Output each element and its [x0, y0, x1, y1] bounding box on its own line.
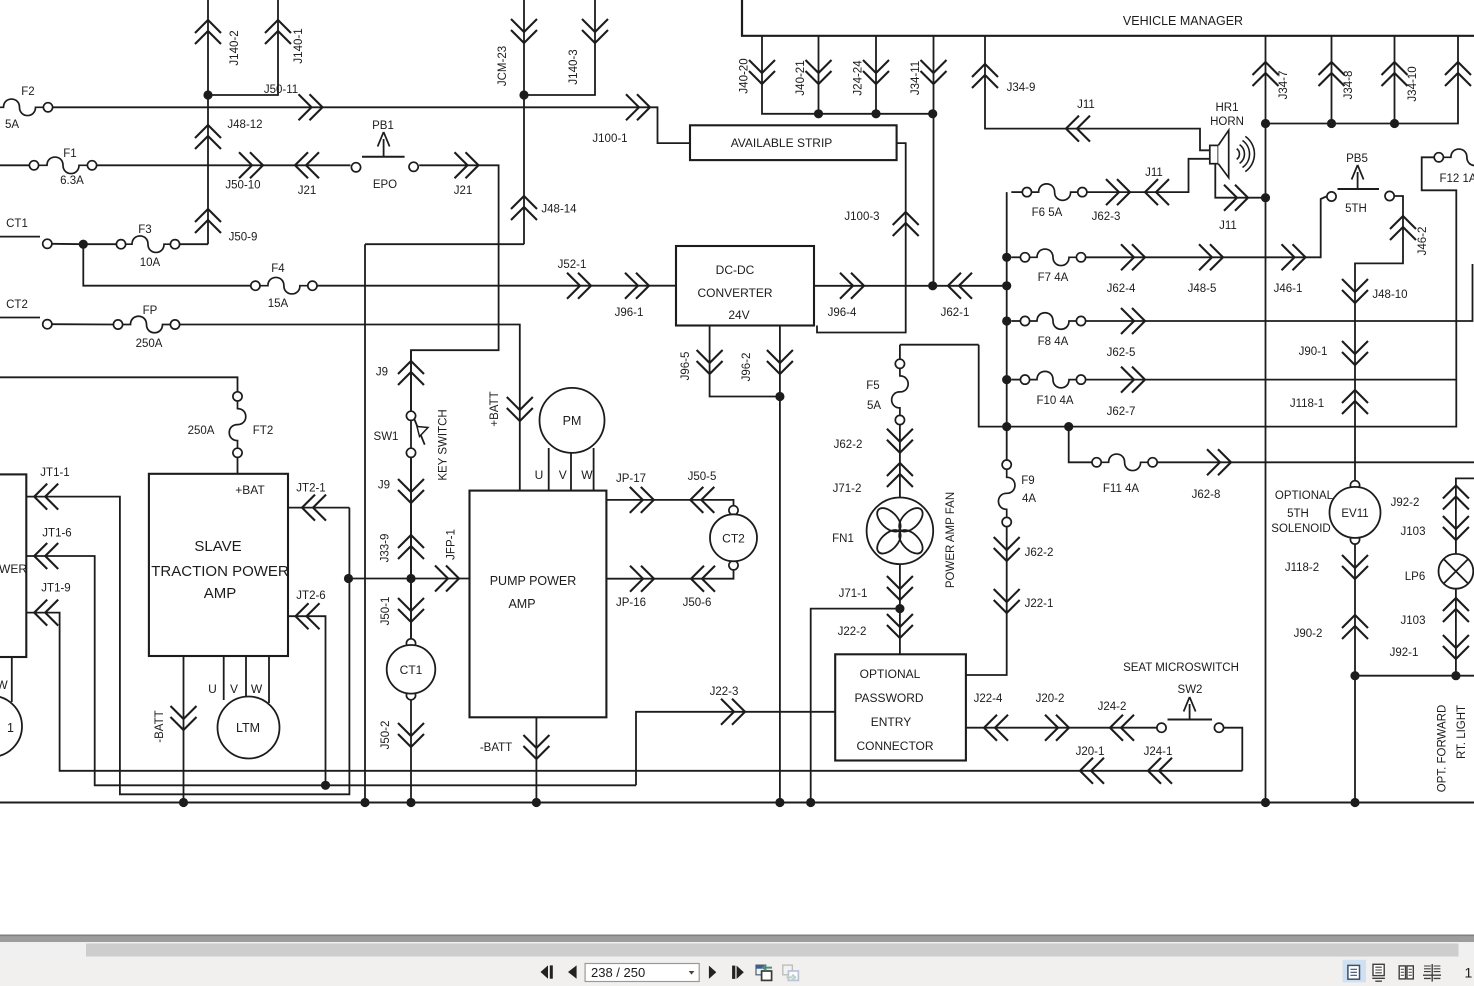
svg-text:J34-8: J34-8 [1343, 71, 1355, 100]
connector J24-1 [1144, 746, 1173, 784]
svg-text:24V: 24V [728, 308, 749, 322]
pushbutton PB1 (EPO) [351, 120, 418, 191]
wire J40-20 drop + left VM bus [762, 36, 932, 114]
wire FP to +BATT of pump amp [180, 325, 520, 491]
junction bus pump -BATT [532, 798, 541, 807]
svg-text:AMP: AMP [204, 585, 237, 602]
motor LTM (slave traction motor) [208, 682, 279, 759]
junction fuse bus bottom [1002, 422, 1011, 431]
connector J96-4 [828, 273, 864, 319]
svg-text:JCM-23: JCM-23 [497, 46, 509, 86]
wire F5 to FN1 fan [899, 425, 901, 499]
connector JP-16 [616, 566, 654, 609]
svg-text:J22-4: J22-4 [974, 693, 1003, 705]
connector J62-5 [1107, 308, 1145, 359]
svg-text:J40-21: J40-21 [795, 60, 807, 95]
connector J90-1 [1299, 341, 1368, 365]
vehicle manager box U100 [742, 0, 1474, 36]
svg-text:J140-1: J140-1 [293, 28, 305, 63]
wire JT2-1 link [288, 507, 349, 509]
svg-text:5A: 5A [5, 119, 19, 131]
junction right VM bus 3 [1390, 119, 1399, 128]
fan FN1 [832, 498, 933, 565]
svg-text:FN1: FN1 [832, 533, 854, 545]
svg-text:KEY SWITCH: KEY SWITCH [438, 409, 450, 480]
connector J24-2 [1098, 701, 1134, 741]
wire JP-17 row to CT2 [606, 500, 733, 506]
svg-text:1: 1 [1465, 965, 1473, 981]
connector J22-2 [838, 614, 913, 638]
wire right lamp chain [1456, 478, 1474, 554]
svg-text:OPTIONAL: OPTIONAL [860, 667, 921, 681]
svg-text:J33-9: J33-9 [380, 534, 392, 563]
svg-text:1: 1 [7, 721, 14, 735]
svg-text:J21: J21 [454, 185, 473, 197]
connector +BATT [489, 391, 533, 426]
svg-text:J62-7: J62-7 [1107, 406, 1136, 418]
wire JT1-9 to line1 [26, 613, 1242, 771]
svg-text:JT1-1: JT1-1 [40, 467, 69, 479]
svg-text:J71-1: J71-1 [839, 588, 868, 600]
svg-text:F2: F2 [21, 86, 34, 98]
wire F3 row [52, 243, 116, 245]
connector J50-10 [225, 152, 263, 191]
connector J50-5 [688, 471, 717, 513]
svg-text:CONVERTER: CONVERTER [697, 286, 772, 300]
connector J34-9 [972, 64, 1035, 94]
svg-text:OPT. FORWARD: OPT. FORWARD [1437, 705, 1449, 793]
connector -BATT pump [480, 735, 550, 759]
connector J22-3 [710, 686, 745, 725]
junction JFP-1 right [406, 574, 415, 583]
svg-text:J50-1: J50-1 [380, 597, 392, 626]
dc-dc converter box U2 [676, 246, 814, 326]
svg-text:EV11: EV11 [1341, 508, 1368, 520]
svg-text:J90-2: J90-2 [1294, 628, 1323, 640]
wire JFP-1 row [349, 578, 470, 580]
fuse F2 5A (cut at left) [0, 86, 53, 131]
master traction power amp box (cut off) [0, 474, 27, 657]
connector J92-2 [1391, 486, 1469, 510]
svg-text:SW1: SW1 [374, 431, 399, 443]
last page button [732, 966, 744, 979]
junction EV11 row right [1451, 671, 1460, 680]
svg-text:15A: 15A [268, 298, 289, 310]
connector JT2-6 [296, 590, 326, 629]
svg-text:JFP-1: JFP-1 [446, 529, 458, 560]
connector J11 horn lower [1145, 167, 1169, 205]
single page view button (active) [1343, 960, 1367, 983]
svg-text:CT1: CT1 [6, 218, 28, 230]
lamp LP6 [1405, 554, 1474, 589]
toolbar background [0, 958, 1474, 986]
wire J34-8 drop [1331, 36, 1333, 124]
svg-text:J50-6: J50-6 [683, 597, 712, 609]
wire F11 branch [1069, 427, 1092, 463]
connector J140-2 [195, 20, 241, 66]
svg-text:PB5: PB5 [1346, 153, 1368, 165]
svg-text:J46-2: J46-2 [1417, 227, 1429, 256]
svg-text:F11 4A: F11 4A [1103, 483, 1140, 495]
fuse FT2 250A [188, 392, 274, 458]
svg-text:V: V [559, 468, 567, 482]
connector J40-21 [795, 60, 832, 96]
junction bus x365 [360, 798, 369, 807]
connector JT1-1 [34, 467, 70, 510]
svg-text:PASSWORD: PASSWORD [854, 691, 923, 705]
page number box 238 / 250 [585, 964, 699, 982]
fuse F5 5A [866, 359, 908, 424]
svg-text:J50-9: J50-9 [229, 232, 258, 244]
wire F5 branch [900, 344, 979, 346]
connector J96-5 [680, 350, 723, 380]
junction right VM bus 1 [1261, 119, 1270, 128]
svg-text:SEAT MICROSWITCH: SEAT MICROSWITCH [1123, 662, 1239, 674]
connector J71-2 [833, 463, 913, 495]
svg-text:F8 4A: F8 4A [1038, 336, 1069, 348]
svg-text:5TH: 5TH [1287, 508, 1309, 520]
svg-text:F7 4A: F7 4A [1038, 272, 1069, 284]
wire JP-16 row to CT2 [606, 570, 733, 579]
svg-text:TRACTION POWER: TRACTION POWER [151, 563, 289, 580]
wire F1 row [0, 164, 29, 166]
junction bus CT1 [406, 798, 415, 807]
junction J71-1 node [895, 604, 904, 613]
svg-text:J96-5: J96-5 [680, 352, 692, 381]
svg-text:J103: J103 [1401, 615, 1426, 627]
fuse F9 4A [998, 460, 1036, 527]
connector J62-4 [1107, 244, 1145, 295]
svg-text:J140-3: J140-3 [568, 49, 580, 84]
junction J62-1 row left [928, 281, 937, 290]
fuse F6 5A [1022, 184, 1087, 219]
connector J96-1 [615, 273, 649, 319]
connector J24-24 [853, 60, 890, 96]
junction left VM bus 2 [871, 109, 880, 118]
connector J50-11 [264, 84, 323, 120]
wire F9 drop [1006, 427, 1008, 460]
connector J62-2 right [994, 537, 1054, 561]
connector JT1-6 [34, 528, 72, 569]
svg-text:J11: J11 [1145, 167, 1163, 179]
junction bus J96-2 [775, 798, 784, 807]
wire F10 row left stub [1011, 379, 1020, 381]
junction fuse bus F8 [1002, 316, 1011, 325]
svg-text:OPTIONAL: OPTIONAL [1275, 490, 1334, 502]
connector J21 left [295, 152, 319, 197]
svg-text:J103: J103 [1401, 526, 1426, 538]
svg-text:PM: PM [563, 414, 582, 428]
motor PM (pump motor) [535, 388, 605, 482]
junction fuse bus F10 [1002, 375, 1011, 384]
svg-text:J34-9: J34-9 [1007, 82, 1036, 94]
svg-text:HORN: HORN [1210, 116, 1244, 128]
pushbutton PB5 (5TH) [1327, 153, 1394, 215]
wire FP row [52, 323, 113, 325]
contact CT1 [6, 218, 52, 248]
wire F3 to J50-9 column [180, 243, 208, 245]
svg-text:JP-17: JP-17 [616, 473, 646, 485]
wire J22-3 row [636, 712, 835, 786]
svg-text:J21: J21 [298, 185, 317, 197]
junction left VM bus 3 [928, 109, 937, 118]
svg-text:RT. LIGHT: RT. LIGHT [1456, 705, 1468, 759]
pump power amp box [470, 491, 607, 718]
wire J34-9 drop to horn feed [985, 36, 1210, 151]
fuse F10 4A [1020, 371, 1085, 407]
connector unlabeled right [1445, 62, 1471, 86]
wire CT1 stub [0, 236, 40, 238]
connector J100-1 [592, 94, 650, 145]
svg-text:J24-24: J24-24 [853, 60, 865, 96]
wire fuse bus vertical [1006, 192, 1008, 427]
connector J20-1 [1076, 746, 1105, 784]
wire J96-5 [710, 326, 780, 397]
svg-text:-BATT: -BATT [154, 710, 166, 742]
svg-text:J140-2: J140-2 [229, 30, 241, 65]
svg-text:EPO: EPO [373, 179, 397, 191]
svg-text:J9: J9 [378, 480, 390, 492]
connector J62-2 fan [834, 429, 913, 453]
connector J71-1 [839, 576, 913, 600]
svg-text:FP: FP [143, 305, 158, 317]
connector J34-7 [1253, 62, 1291, 99]
connector J48-5 [1188, 244, 1223, 295]
svg-text:J118-1: J118-1 [1290, 398, 1324, 410]
connector J34-10 [1382, 62, 1420, 102]
svg-text:6.3A: 6.3A [60, 175, 84, 187]
solenoid EV11 [1271, 481, 1380, 544]
connector J46-1 [1274, 244, 1306, 295]
wire FN1 to password box [899, 564, 901, 654]
svg-text:J62-8: J62-8 [1192, 489, 1221, 501]
svg-text:J100-3: J100-3 [844, 211, 879, 223]
fuse F8 4A [1020, 313, 1085, 348]
svg-text:J9: J9 [376, 367, 388, 379]
svg-text:AVAILABLE STRIP: AVAILABLE STRIP [731, 136, 833, 150]
wire CT2 stub [0, 317, 40, 319]
connector J92-1 [1390, 635, 1469, 659]
wire F7 row to PB5 [1086, 197, 1327, 258]
connector J11 horn out [1219, 185, 1248, 232]
svg-text:J22-2: J22-2 [838, 626, 867, 638]
available strip box [690, 125, 897, 160]
two page view button [1399, 966, 1413, 979]
svg-text:J24-2: J24-2 [1098, 701, 1127, 713]
svg-text:J48-12: J48-12 [227, 119, 262, 131]
next view icon (disabled) [783, 965, 799, 980]
junction EV11 row left [1350, 671, 1359, 680]
connector J11 horn top [1066, 99, 1095, 142]
fuse F3 10A [116, 224, 179, 269]
svg-text:J24-1: J24-1 [1144, 746, 1173, 758]
svg-text:ENTRY: ENTRY [871, 715, 911, 729]
connector J118-2 [1285, 555, 1368, 579]
fuse FP 250A [113, 305, 179, 350]
wire J46-2 / J48-10 chain [1355, 196, 1403, 481]
scrollbar thumb [86, 944, 1459, 957]
svg-text:J62-4: J62-4 [1107, 283, 1136, 295]
svg-text:4A: 4A [1022, 493, 1036, 505]
svg-text:PB1: PB1 [372, 120, 394, 132]
svg-text:10A: 10A [140, 257, 161, 269]
wire J9 top link [410, 350, 412, 411]
connector J34-8 [1319, 62, 1356, 99]
junction bus J71-1 [806, 798, 815, 807]
svg-text:LTM: LTM [236, 721, 260, 735]
scrollbar track [0, 942, 1474, 958]
svg-text:+BAT: +BAT [235, 483, 265, 497]
svg-text:F5: F5 [866, 380, 879, 392]
svg-text:F9: F9 [1021, 475, 1034, 487]
connector J100-3 [844, 211, 918, 236]
svg-text:J34-11: J34-11 [910, 61, 922, 95]
connector JT2-1 [296, 483, 326, 521]
junction bus slave -BATT [179, 798, 188, 807]
wire vertical x365 to bottom bus [364, 244, 366, 802]
connector JFP-1 [435, 529, 459, 591]
svg-text:250A: 250A [188, 425, 215, 437]
svg-text:U: U [208, 682, 217, 696]
svg-text:238 / 250: 238 / 250 [591, 965, 645, 980]
connector J33-9 [380, 534, 425, 563]
connector J22-1 [994, 589, 1054, 613]
svg-text:J96-4: J96-4 [828, 307, 857, 319]
svg-text:POWER AMP FAN: POWER AMP FAN [945, 492, 957, 588]
svg-text:J62-5: J62-5 [1107, 347, 1136, 359]
bottom bus -BATT rail [0, 802, 1474, 804]
svg-text:SW2: SW2 [1178, 684, 1203, 696]
wire slave W phase [268, 656, 270, 703]
fuse F4 15A [251, 263, 317, 310]
svg-text:J62-3: J62-3 [1092, 211, 1121, 223]
wire EV11 to bottom bus [1354, 544, 1356, 802]
svg-text:-BATT: -BATT [480, 742, 512, 754]
fuse F11 4A [1092, 454, 1157, 495]
connector -BATT slave [154, 706, 197, 743]
connector J50-1 [380, 597, 424, 626]
junction JT2-6 line2 [321, 781, 330, 790]
junction bus J34-7 [1261, 798, 1270, 807]
svg-text:5TH: 5TH [1345, 203, 1367, 215]
wire F7 row left stub [1011, 256, 1020, 258]
connector J90-2 [1294, 615, 1368, 640]
wire seat switch right leg [1224, 728, 1243, 771]
wire J140-3 vertical [524, 0, 595, 95]
svg-text:J96-1: J96-1 [615, 307, 644, 319]
svg-text:J48-10: J48-10 [1372, 289, 1407, 301]
connector J20-2 [1036, 693, 1069, 741]
svg-text:CT2: CT2 [722, 532, 745, 546]
fuse F12 1A (cut at right) [1434, 149, 1474, 185]
wire CT1 to bottom bus [410, 700, 412, 803]
wire J71-1 branch to bottom bus [811, 609, 900, 803]
svg-text:J22-1: J22-1 [1025, 598, 1054, 610]
contact CT2 [6, 299, 52, 329]
current transducer CT1 [387, 639, 436, 700]
connector J48-12 [195, 119, 263, 149]
svg-text:DC-DC: DC-DC [716, 263, 755, 277]
svg-text:AMP: AMP [508, 597, 535, 611]
previous view icon [756, 965, 772, 981]
connector J50-9 [195, 209, 257, 244]
wire horn output to J34-7 line [1215, 164, 1265, 198]
wire PM W phase [593, 448, 595, 491]
current transducer CT2 [710, 506, 757, 570]
wire F2 row to J100-1 and AVAILABLE STRIP [53, 107, 690, 143]
svg-text:CT2: CT2 [6, 299, 28, 311]
horn HR1 [1210, 102, 1255, 178]
wire J96-4 / J62-1 row [814, 285, 1007, 287]
svg-text:J48-14: J48-14 [541, 204, 577, 216]
svg-text:J34-10: J34-10 [1407, 66, 1419, 101]
wire J24-24 drop [875, 36, 877, 114]
svg-text:+BATT: +BATT [489, 391, 501, 426]
connector J40-20 [739, 58, 776, 93]
junction F3 node [79, 240, 88, 249]
wire J62-2 J22-1 chain to password box [966, 527, 1007, 675]
wire cross link J48-14 to key switch column [365, 243, 524, 245]
svg-text:J96-2: J96-2 [741, 353, 753, 382]
wire pump -BATT to bottom bus [535, 717, 537, 802]
seat microswitch SW2 [1123, 662, 1239, 732]
connector JP-17 [616, 473, 654, 513]
fuse F7 4A [1020, 249, 1085, 284]
svg-text:J52-1: J52-1 [558, 259, 587, 271]
wire JT1-6 to line2 [26, 556, 636, 785]
connector J9 lower [378, 479, 424, 503]
label OPT. FORWARD [1437, 705, 1449, 793]
junction J96-5/J96-2 [775, 392, 784, 401]
svg-text:JT2-6: JT2-6 [296, 590, 325, 602]
svg-text:WER: WER [0, 562, 27, 576]
first page button [541, 965, 553, 978]
svg-text:J62-2: J62-2 [834, 439, 863, 451]
connector J34-11 [910, 60, 947, 95]
svg-text:CONNECTOR: CONNECTOR [856, 739, 933, 753]
svg-text:J62-1: J62-1 [941, 307, 970, 319]
svg-text:J20-2: J20-2 [1036, 693, 1065, 705]
svg-text:HR1: HR1 [1215, 102, 1238, 114]
svg-text:J48-5: J48-5 [1188, 283, 1217, 295]
scrollbar dark band [0, 935, 1474, 943]
junction left VM bus 1 [814, 109, 823, 118]
continuous view button [1372, 964, 1385, 981]
svg-text:J62-2: J62-2 [1025, 547, 1054, 559]
svg-text:J71-2: J71-2 [833, 483, 862, 495]
wire FT2 feed [0, 377, 238, 392]
wire J34-10 drop [1394, 36, 1396, 124]
zoom level text [1465, 965, 1473, 981]
svg-text:J50-2: J50-2 [380, 721, 392, 750]
connector J140-3 [568, 19, 608, 85]
wire EV11 output row to right edge [1355, 675, 1474, 677]
connector JCM-23 [497, 19, 537, 86]
wire PM V phase [570, 453, 572, 491]
svg-text:J22-3: J22-3 [710, 686, 739, 698]
wire J40-21 drop [818, 36, 820, 114]
wire slave V phase [245, 656, 247, 697]
connector J22-4 [974, 693, 1008, 741]
junction fuse bus F7 [1002, 253, 1011, 262]
connector J140-1 [265, 20, 305, 64]
connector JT1-9 [34, 583, 71, 626]
label RT. LIGHT [1456, 705, 1468, 759]
connector J62-7 [1107, 367, 1145, 418]
connector J50-2 [380, 721, 424, 750]
svg-text:5A: 5A [867, 400, 881, 412]
connector J62-1 [941, 273, 972, 319]
